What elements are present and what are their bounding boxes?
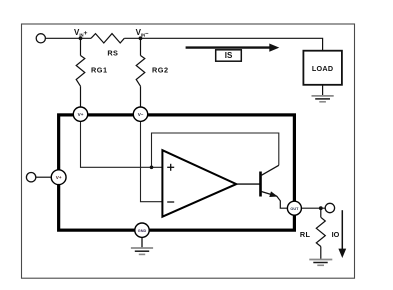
wire RG1 column [80, 38, 82, 55]
svg-text:IO: IO [332, 230, 340, 239]
op-amp U1 [162, 150, 236, 217]
wire top rail from input terminal to LOAD [45, 37, 91, 39]
svg-text:V+: V+ [56, 175, 62, 180]
svg-text:OUT: OUT [290, 207, 299, 211]
ground below GND pin [131, 248, 153, 254]
wire V+ supply terminal to pin [36, 176, 51, 178]
pin V+ input (top-left) [73, 107, 87, 121]
pin V- input (top-right) [133, 107, 147, 121]
pin V+ supply (left) [51, 170, 66, 185]
resistor RG1 [76, 56, 85, 87]
LOAD box [303, 51, 342, 85]
pin GND (bottom) [135, 223, 149, 237]
resistor RL [316, 217, 325, 246]
node VIN+ [79, 36, 83, 40]
wire op-amp output to base [236, 183, 260, 185]
resistor RS [91, 34, 124, 43]
resistor RG2 [136, 56, 145, 87]
svg-text:RG1: RG1 [91, 66, 108, 75]
node VIN- [139, 36, 143, 40]
border frame [22, 24, 355, 278]
node + input junction [150, 166, 154, 170]
wire GND pin to ground [141, 237, 143, 247]
svg-text:RS: RS [107, 49, 118, 58]
terminal V+ supply [26, 173, 35, 182]
IS current arrow [186, 44, 280, 52]
wire LOAD to ground [322, 85, 324, 96]
IO current arrow [332, 210, 347, 258]
wire pin V- (top-right) to op-amp - input [141, 121, 163, 202]
amplifier boundary box (thick) [59, 115, 295, 230]
svg-text:V+: V+ [78, 112, 84, 117]
svg-text:GND: GND [138, 229, 147, 233]
svg-text:RL: RL [300, 230, 311, 239]
svg-text:RG2: RG2 [152, 66, 169, 75]
wire RL column [320, 208, 322, 217]
ground below LOAD [312, 96, 334, 102]
svg-text:IS: IS [225, 51, 233, 60]
terminal VIN+ input [36, 34, 45, 43]
svg-text:LOAD: LOAD [312, 64, 334, 73]
node RL junction [319, 206, 323, 210]
IS label box [216, 50, 242, 61]
ground below RL [309, 260, 332, 266]
wire feedback from + input node to collector [152, 133, 279, 167]
wire RG2 column [140, 38, 142, 55]
wire OUT pin to output terminal [301, 207, 325, 209]
wire emitter to OUT pin [277, 196, 288, 208]
pin OUT (right) [287, 201, 301, 215]
svg-text:V–: V– [138, 112, 144, 117]
wire pin V+ (top-left) to op-amp + input [81, 121, 163, 167]
terminal output [325, 203, 334, 212]
transistor Q1 [261, 165, 279, 197]
